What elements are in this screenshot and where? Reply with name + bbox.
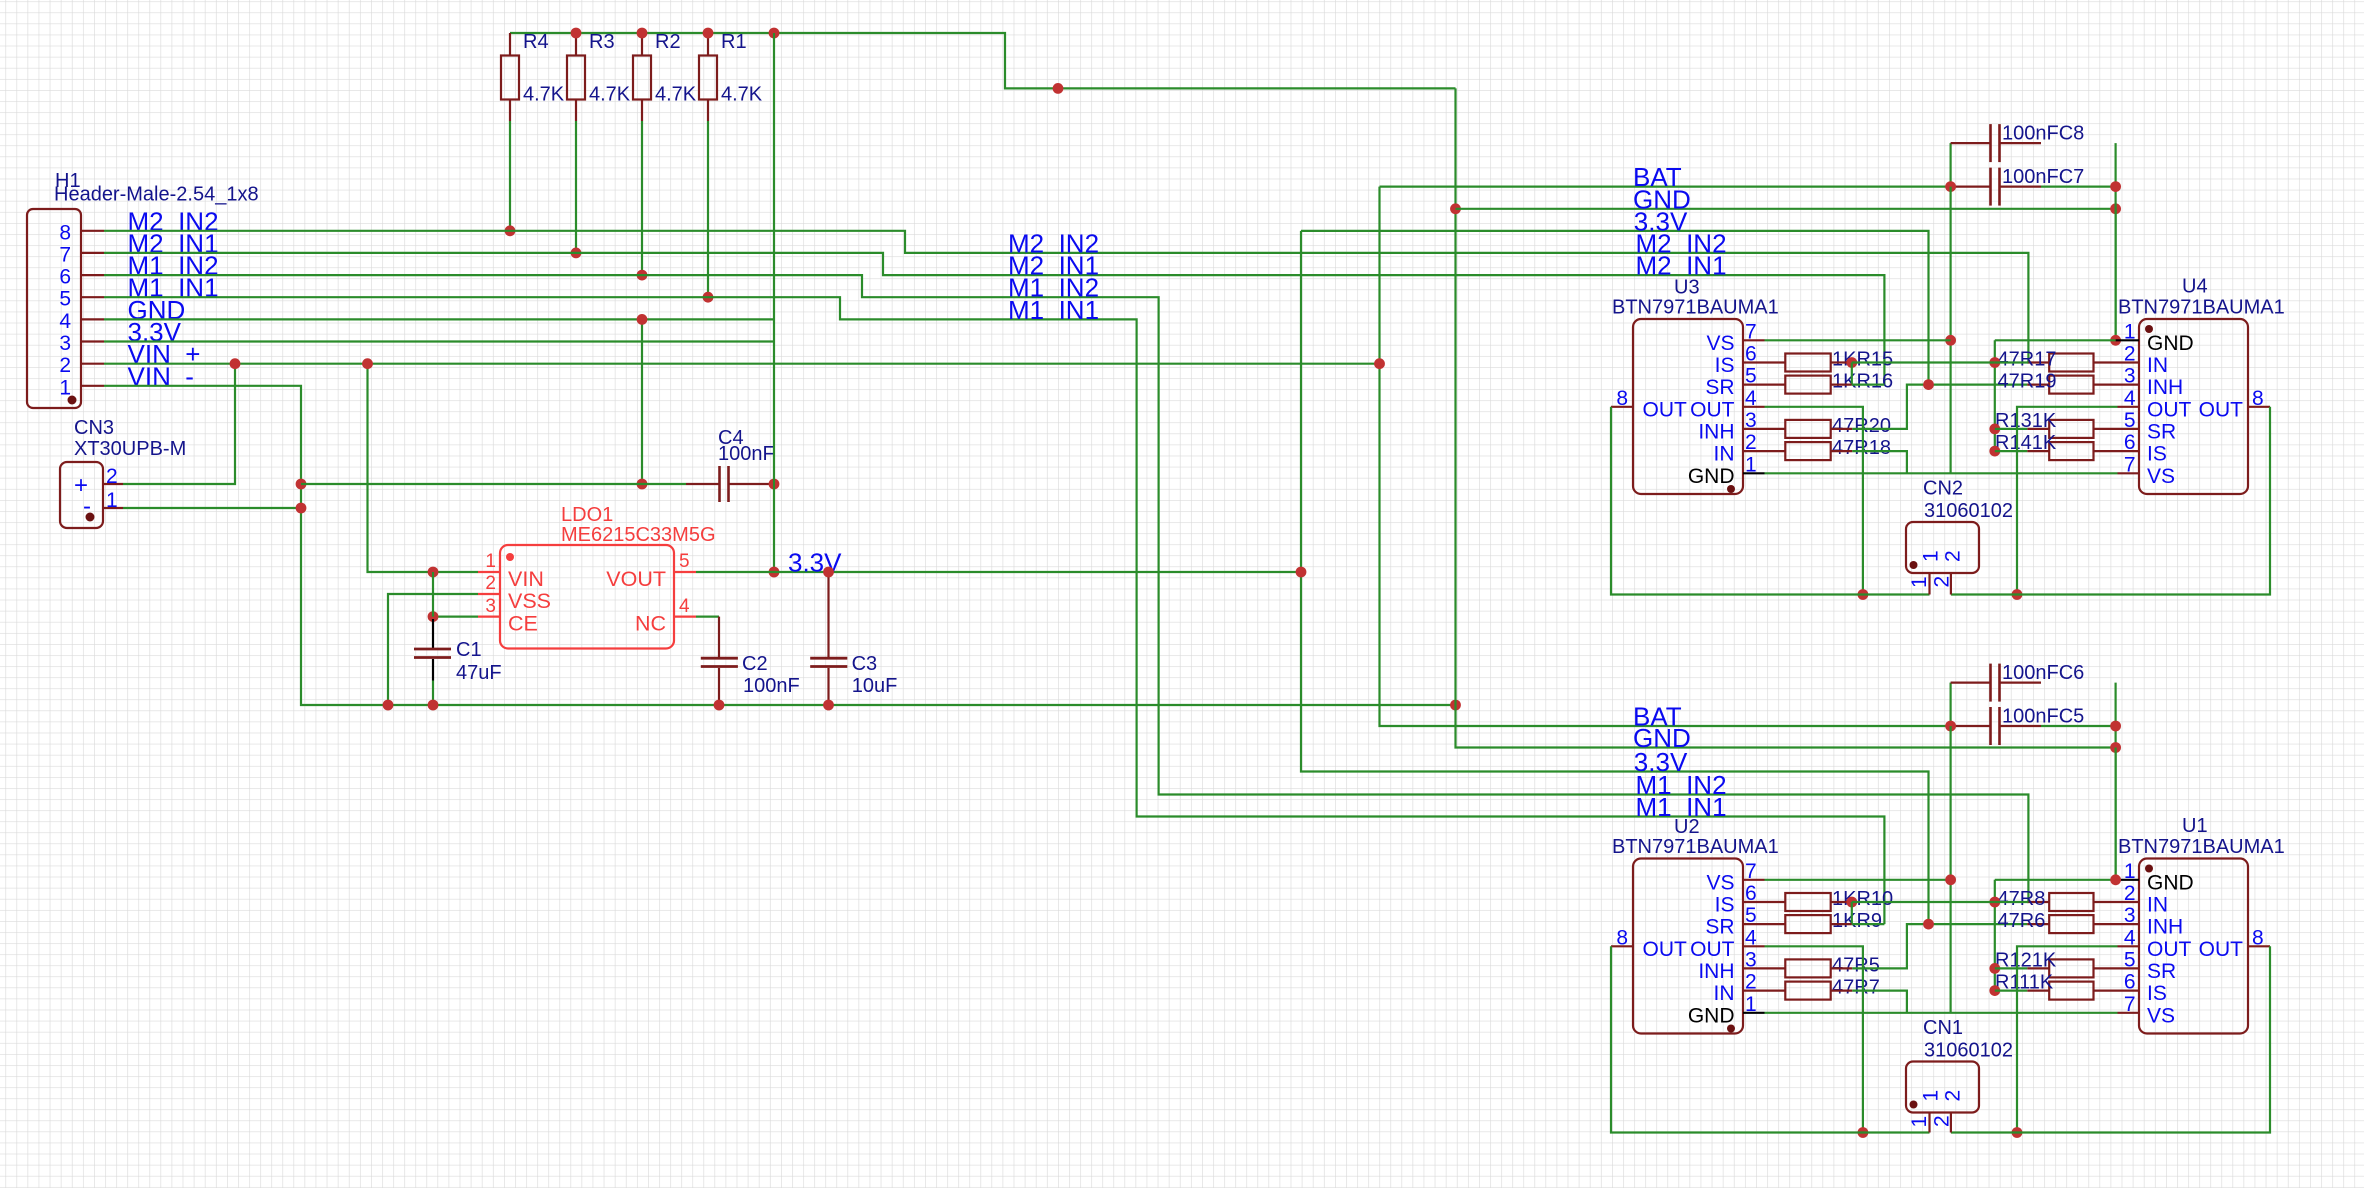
resistor R16 1K [1765,371,1894,394]
svg-text:C1: C1 [456,639,482,661]
svg-text:2: 2 [1931,1115,1954,1127]
wire IS row join [1852,901,1995,903]
wire GND row top [1456,208,2116,210]
wire GND column from top jog to bottom GND row [1456,88,2116,747]
U3 pin 3 stub [1743,428,1765,430]
H1 pin 6 stub [81,274,104,276]
wire C6 right drop [2115,683,2117,880]
wire C8 left drop to BAT [1949,143,1951,187]
svg-text:7: 7 [1745,860,1757,883]
svg-text:100nFC6: 100nFC6 [2002,662,2084,684]
R9 lead right [1831,923,1852,925]
resistor R9 1K [1765,910,1883,933]
wire M2 IN1 (H1 pin7) with jog [104,253,1884,385]
resistor R4 4.7K [501,31,565,121]
junction 3.3V at INH row [1923,919,1934,930]
wire INH row jog up [1852,385,2027,429]
wire U-right OUT to right rail [2017,407,2118,595]
H1 pin 5 stub [81,296,104,298]
U2 pin 1 stub [1743,1012,1765,1014]
resistor R11 1K [1995,972,2118,1000]
svg-text:4: 4 [1745,387,1757,410]
svg-text:6: 6 [2124,971,2136,994]
junction C1 top on VIN row [428,567,439,578]
junction GND column at top GND row [1450,203,1461,214]
svg-text:1KR15: 1KR15 [1832,349,1893,371]
capacitor C5 100nF [1951,706,2085,746]
wire join vertical [1851,902,1853,924]
junction VIN+ drop [362,358,373,369]
svg-text:5: 5 [2124,409,2136,432]
connector H1 Header-Male-2.54_1x8 body [27,170,259,408]
wire GND (H1 pin4) [104,318,774,320]
svg-text:IN: IN [1714,982,1735,1005]
wire BAT row top [1380,186,1951,188]
junction mid vertical at IN row [1989,357,2000,368]
svg-text:31060102: 31060102 [1924,1040,2013,1062]
LDO1 pin 5 VOUT stub [674,571,696,573]
svg-text:6: 6 [59,266,71,289]
IC U4 pin-1 marker [2145,325,2153,333]
resistor R12 1K [1995,949,2118,977]
svg-text:47R5: 47R5 [1832,954,1880,976]
U3 pin 4 stub [1743,406,1765,408]
wire right cap vertical to U4 pin1 [2115,209,2117,340]
svg-text:1KR10: 1KR10 [1832,888,1893,910]
svg-text:47R17: 47R17 [1998,349,2057,371]
svg-text:1: 1 [1920,550,1943,562]
junction mid vertical at IS row [1989,985,2000,996]
svg-text:1KR16: 1KR16 [1832,371,1893,393]
U1 pin 5 stub [2118,967,2140,969]
svg-text:100nF: 100nF [718,443,775,465]
resistor R1 4.7K [699,31,763,121]
svg-text:1: 1 [1745,453,1757,476]
connector CN1 31060102 body [1906,1017,2013,1113]
svg-text:2: 2 [106,465,118,488]
svg-text:GND: GND [1688,1004,1735,1027]
resistor R5 47 [1765,954,1880,977]
junction right vertical at U1 GND [2110,874,2121,885]
svg-text:OUT: OUT [1643,938,1688,961]
svg-text:VS: VS [1706,871,1734,894]
svg-text:47uF: 47uF [456,662,502,684]
svg-text:2: 2 [1931,576,1954,588]
wire GND row right segment [1995,879,2116,881]
wire VSS to ground rail [388,594,478,705]
wire VIN+ drop to LDO VIN [368,364,479,572]
H1 pin 4 stub [81,318,104,320]
svg-text:GND: GND [2147,871,2194,894]
resistor R17 47 [1998,349,2118,372]
H1 pin 8 stub [81,230,104,232]
svg-text:R2: R2 [655,31,681,53]
svg-text:47R20: 47R20 [1832,415,1891,437]
junction bottom GND row end [2110,742,2121,753]
svg-text:CN3: CN3 [74,417,114,439]
junction C2 at rail [714,700,725,711]
svg-text:47R19: 47R19 [1998,371,2057,393]
svg-text:4.7K: 4.7K [655,84,697,106]
CN2 pin 2 stub [1950,573,1952,595]
U4 pin 2 stub [2118,361,2140,363]
junction resistor to row [505,225,516,236]
resistor R6 47 [1998,910,2118,933]
svg-text:GND: GND [1688,465,1735,488]
CN1 pin 2 stub [1950,1113,1952,1133]
svg-text:5: 5 [1745,904,1757,927]
junction right vertical at U4 GND [2110,335,2121,346]
resistor R10 1K [1765,888,1894,911]
svg-text:VIN: VIN [508,567,544,591]
wire 3.3V row top [1301,231,1929,385]
U4 pin 3 stub [2118,384,2140,386]
resistor R13 1K [1995,410,2118,438]
svg-text:XT30UPB-M: XT30UPB-M [74,438,186,460]
junction BAT vertical at U2 VS row [1945,874,1956,885]
svg-text:2: 2 [1942,1090,1965,1102]
junction CE at C1 column [428,611,439,622]
wire IN row jog down to VS row [1852,991,1907,1013]
U3 pin 5 stub [1743,384,1765,386]
svg-text:U4: U4 [2182,276,2208,298]
resistor R2 4.7K [633,31,697,121]
svg-text:100nF: 100nF [743,675,800,697]
U3 pin 1 stub [1743,472,1765,474]
wire IS feed right [1995,989,2027,991]
svg-text:CE: CE [508,612,538,636]
svg-text:47R8: 47R8 [1998,888,2046,910]
svg-text:4: 4 [679,596,690,617]
svg-text:R1: R1 [721,31,747,53]
svg-text:7: 7 [59,243,71,266]
svg-text:47R7: 47R7 [1832,977,1880,999]
wire join vertical [1851,363,1853,385]
wire 3.3V vertical from top rail to VOUT row [773,33,775,572]
junction resistor to row [703,292,714,303]
resistor R3 4.7K [567,31,631,121]
svg-text:C3: C3 [852,653,878,675]
junction CN3- on VIN- vertical [296,503,307,514]
U2 pin 7 stub [1743,879,1765,881]
junction on top rail [703,28,714,39]
svg-text:2: 2 [1942,550,1965,562]
svg-text:8: 8 [2252,387,2264,410]
svg-text:OUT: OUT [2199,398,2244,421]
svg-text:3: 3 [1745,409,1757,432]
junction 3.3V at INH row [1923,379,1934,390]
wire mid vertical GND-row to IS-row [1994,880,1996,991]
wire GND horizontal to C4 [301,483,686,485]
svg-text:4.7K: 4.7K [589,84,631,106]
svg-text:7: 7 [2124,453,2136,476]
svg-text:R4: R4 [523,31,549,53]
capacitor C8 100nF [1951,123,2085,163]
junction on top rail [637,28,648,39]
svg-text:3: 3 [59,332,71,355]
wire INH row jog up [1852,924,2027,968]
U4 pin 8 stub [2248,406,2270,408]
svg-text:100nFC7: 100nFC7 [2002,166,2084,188]
wire GND row right segment [1995,339,2116,341]
svg-text:4: 4 [2124,926,2136,949]
wire mid vertical GND-row to IS-row [1994,340,1996,451]
LDO1 pin 4 NC stub [674,615,696,617]
wire M1 IN1 (H1 pin5) jog down to bottom section [104,297,1884,924]
wire M1 IN2 (H1 pin6) jog down to bottom section [104,275,2028,902]
svg-text:3.3V: 3.3V [788,548,842,578]
junction C5 left on BAT bottom [1945,721,1956,732]
wire U-left OUT to left rail [1765,946,1863,1132]
junction BAT column at VIN+ row [1374,358,1385,369]
IC LDO1 ME6215C33M5G body [500,504,716,649]
junction mid vertical at IN row [1989,897,2000,908]
svg-text:OUT: OUT [2147,398,2192,421]
svg-text:1KR9: 1KR9 [1832,910,1882,932]
wire VS-GND long row [1765,1012,2118,1014]
svg-text:LDO1: LDO1 [561,504,613,526]
svg-text:100nFC5: 100nFC5 [2002,706,2084,728]
wire IN resistor feed [1995,901,2029,903]
svg-text:M1 IN1: M1 IN1 [1008,295,1099,325]
wire IS row join [1852,361,1995,363]
U4 pin 7 stub [2118,472,2140,474]
svg-text:8: 8 [1616,926,1628,949]
junction on top rail [571,28,582,39]
wire IN row jog down to VS row [1852,451,1907,473]
connector CN1 pin-1 marker [1910,1101,1918,1109]
svg-text:BTN7971BAUMA1: BTN7971BAUMA1 [2118,297,2285,319]
svg-text:1: 1 [1920,1090,1943,1102]
junction C3 top on 3.3V row [823,567,834,578]
wire BAT row bottom right of C5 [2041,725,2116,727]
svg-text:6: 6 [2124,431,2136,454]
svg-text:VS: VS [2147,465,2175,488]
CN3 pin 1 stub [103,507,123,509]
CN2 pin 1 stub [1928,573,1930,595]
R16 lead right [1831,384,1852,386]
wire left rail (motor A) [1611,946,1930,1132]
svg-text:47R6: 47R6 [1998,910,2046,932]
svg-text:VS: VS [2147,1004,2175,1027]
svg-text:CN2: CN2 [1923,478,1963,500]
svg-text:5: 5 [1745,365,1757,388]
U1 pin 7 stub [2118,1012,2140,1014]
svg-text:VOUT: VOUT [606,567,666,591]
svg-text:ME6215C33M5G: ME6215C33M5G [561,524,716,546]
U3 pin 7 stub [1743,339,1765,341]
wire 3.3V column [1301,231,1929,924]
svg-text:OUT: OUT [2199,938,2244,961]
U2 pin 5 stub [1743,923,1765,925]
IC U2 BTN7971BAUMA1 body [1612,816,1779,1034]
wire CN3 pin1 to VIN- vertical [123,507,301,509]
svg-text:4: 4 [59,310,71,333]
wire SR feed right [1995,428,2027,430]
resistor R14 1K [1995,432,2118,460]
resistor R20 47 [1765,415,1891,438]
junction LDO rail end on GND column [1450,700,1461,711]
IC U3 BTN7971BAUMA1 body [1612,277,1779,495]
wire right cap vertical to U1 pin1 [2115,748,2117,880]
R10 lead right [1831,901,1852,903]
svg-text:6: 6 [1745,343,1757,366]
U3 pin 6 stub [1743,361,1765,363]
wire U-right OUT to right rail [2017,946,2118,1132]
U2 pin 8 stub [1611,945,1633,947]
svg-text:INH: INH [1698,420,1734,443]
resistor R19 47 [1998,371,2118,394]
svg-text:Header-Male-2.54_1x8: Header-Male-2.54_1x8 [54,184,259,206]
wire C8 right drop [2115,143,2117,340]
junction GND drop [637,314,648,325]
svg-text:1: 1 [485,551,496,572]
svg-text:7: 7 [1745,320,1757,343]
svg-text:VSS: VSS [508,589,551,613]
svg-text:31060102: 31060102 [1924,500,2013,522]
junction IS resistor join [1846,357,1857,368]
junction 3.3V vertical at VOUT row [769,567,780,578]
R18 lead right [1831,450,1853,452]
svg-text:IS: IS [1715,894,1735,917]
svg-text:3: 3 [2124,365,2136,388]
junction C7 right on BAT [2110,181,2121,192]
junction C3 at rail [823,700,834,711]
svg-text:OUT: OUT [1690,398,1735,421]
junction resistor to row [571,248,582,259]
wire CE to C1 column [433,615,478,617]
svg-text:GND: GND [2147,332,2194,355]
svg-text:1: 1 [59,376,71,399]
wire left rail (motor A) [1611,407,1930,595]
wire BAT column [1380,187,1951,726]
svg-text:3: 3 [2124,904,2136,927]
junction 3.3V column at VOUT row [1296,567,1307,578]
svg-text:CN1: CN1 [1923,1017,1963,1039]
wire right rail (motor B) [1951,946,2270,1132]
svg-text:2: 2 [2124,882,2136,905]
wire resistor drop [509,121,511,231]
wire VS row left segment [1765,339,1951,341]
wire BAT row top right of C7 [2041,186,2116,188]
U4 pin 6 stub [2118,450,2140,452]
IC U4 BTN7971BAUMA1 body [2118,276,2285,495]
H1 pin 7 stub [81,252,104,254]
svg-text:1: 1 [2124,320,2136,343]
svg-text:INH: INH [2147,916,2183,939]
svg-text:10uF: 10uF [852,675,898,697]
svg-text:1: 1 [1745,993,1757,1016]
svg-text:2: 2 [2124,343,2136,366]
svg-text:INH: INH [2147,376,2183,399]
wire NC to C2 [696,615,719,617]
svg-text:OUT: OUT [1643,398,1688,421]
svg-text:4: 4 [1745,926,1757,949]
capacitor C4 100nF [686,427,775,502]
wire C1 bottom to rail [432,681,434,706]
svg-text:3: 3 [1745,948,1757,971]
svg-text:BTN7971BAUMA1: BTN7971BAUMA1 [1612,836,1779,858]
svg-text:C2: C2 [742,653,768,675]
wire C1 column upper [432,572,434,617]
svg-text:5: 5 [2124,948,2136,971]
resistor R18 47 [1765,437,1891,460]
U4 pin 1 stub [2116,339,2139,341]
CN1 pin 1 stub [1928,1113,1930,1133]
svg-text:4.7K: 4.7K [523,84,565,106]
LDO1 pin 3 CE stub [478,615,500,617]
junction GND drop at C4 rail [637,479,648,490]
wire IS feed right [1995,450,2027,452]
svg-text:IS: IS [2147,443,2167,466]
svg-text:2: 2 [59,354,71,377]
svg-text:4: 4 [2124,387,2136,410]
U2 pin 2 stub [1743,989,1765,991]
junction mid vertical at IS row [1989,446,2000,457]
svg-text:IS: IS [1715,354,1735,377]
wire VS row left segment [1765,879,1951,881]
svg-text:VS: VS [1706,332,1734,355]
svg-text:2: 2 [1745,431,1757,454]
wire C6 left drop to BAT bottom [1949,683,1951,726]
U1 pin 8 stub [2248,945,2270,947]
wire GND drop to C4 rail [641,319,643,484]
capacitor C3 10uF [810,574,897,705]
U4 pin 4 stub [2118,406,2140,408]
resistor R7 47 [1765,977,1880,1000]
svg-text:7: 7 [2124,993,2136,1016]
svg-text:R3: R3 [589,31,615,53]
svg-text:M1 IN1: M1 IN1 [1636,792,1727,822]
U1 pin 6 stub [2118,989,2140,991]
wire resistor drop [707,121,709,297]
capacitor C1 47uF [414,619,502,684]
svg-text:U3: U3 [1674,277,1700,299]
wire right rail (motor B) [1951,407,2270,595]
U4 pin 5 stub [2118,428,2140,430]
wire VOUT 3.3V row [696,571,1301,573]
svg-text:SR: SR [2147,420,2176,443]
svg-text:100nFC8: 100nFC8 [2002,123,2084,145]
svg-text:4.7K: 4.7K [721,84,763,106]
wire VS-GND long row [1765,472,2118,474]
connector CN2 pin-1 marker [1910,561,1918,569]
H1 pin 3 stub [81,340,104,342]
junction on top rail [769,28,780,39]
junction right OUT at rail [2012,589,2023,600]
U1 pin 1 stub [2116,879,2139,881]
svg-text:8: 8 [1616,387,1628,410]
wire IN resistor feed [1995,361,2029,363]
IC U3 pin-1 marker [1727,485,1735,493]
svg-text:SR: SR [1705,916,1734,939]
svg-text:1: 1 [1908,1116,1931,1128]
junction C4 right on 3.3V vertical [769,479,780,490]
junction IS resistor join [1846,897,1857,908]
junction left OUT at rail [1858,1127,1869,1138]
U2 pin 3 stub [1743,967,1765,969]
U2 pin 4 stub [1743,945,1765,947]
U2 pin 6 stub [1743,901,1765,903]
capacitor C7 100nF [1951,166,2085,206]
svg-text:IN: IN [1714,443,1735,466]
svg-text:1: 1 [1908,576,1931,588]
IC U2 pin-1 marker [1727,1025,1735,1033]
connector CN2 31060102 body [1906,478,2013,574]
wire BAT mid vertical bottom [1949,726,1951,1013]
wire VIN- (H1 pin1) down to LDO ground rail [104,386,1456,705]
LDO1 pin 2 VSS stub [478,593,500,595]
